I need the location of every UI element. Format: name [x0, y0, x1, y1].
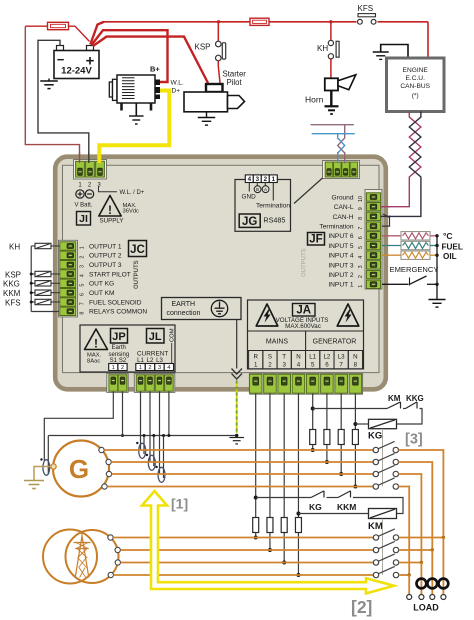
wire mains sense N [297, 394, 299, 576]
wire KG pole 3 output [399, 474, 422, 563]
wire battery + to starter pilot (thick red strand C) [93, 37, 208, 83]
wire CAN-H exit (over border) [381, 215, 392, 217]
node emergency [435, 283, 438, 286]
svg-text:KH: KH [317, 44, 328, 53]
wire to KG coil [397, 409, 423, 425]
label EMERGENCY [390, 265, 439, 274]
label Earth sensing [109, 345, 130, 358]
node KH branch [329, 20, 332, 23]
svg-text:3: 3 [256, 176, 260, 183]
wire generator phase 1 [104, 449, 373, 451]
label Starter Pilot [223, 70, 247, 88]
node mains sense T [282, 561, 286, 565]
node generator sense L2 [325, 460, 329, 464]
fuse generator L2 [324, 430, 330, 445]
svg-text:7: 7 [358, 227, 364, 230]
horn [325, 75, 356, 91]
wire COM link [171, 343, 173, 364]
svg-text:Earth: Earth [112, 345, 126, 351]
label KFS [358, 4, 374, 13]
svg-text:FUEL SOLENOID: FUEL SOLENOID [89, 299, 142, 306]
wire JI-2 entry (over border) [88, 153, 90, 164]
wire CT1 lead to JL1 [140, 392, 142, 451]
svg-text:CURRENT: CURRENT [137, 351, 168, 358]
svg-text:T: T [282, 354, 286, 361]
alternator (charger) [109, 75, 160, 111]
svg-text:CAN-BUS: CAN-BUS [400, 83, 430, 90]
svg-text:Pilot: Pilot [227, 78, 243, 87]
cable marker ring 2 [427, 579, 437, 589]
label [2] [351, 597, 372, 617]
svg-text:MAX.600Vac: MAX.600Vac [285, 323, 321, 330]
wire CAN bus stub B (blue) [312, 134, 355, 162]
svg-text:2: 2 [268, 362, 272, 369]
wire CAN-H twisted pair (dark) [382, 112, 421, 217]
label COM (vertical) [170, 328, 176, 342]
svg-text:D+: D+ [172, 88, 181, 95]
svg-text:L2: L2 [323, 354, 330, 361]
fuse F1 (battery fuse) [25, 22, 68, 29]
mains port 4 [108, 572, 113, 577]
generator neutral port [51, 464, 56, 469]
svg-text:RELAYS COMMON: RELAYS COMMON [89, 309, 147, 316]
wire CT2 return [152, 434, 155, 466]
svg-text:OUTPUT 1: OUTPUT 1 [89, 243, 122, 250]
svg-text:4: 4 [248, 176, 252, 183]
mains port 1 [108, 535, 113, 540]
wire CAN mauve entry (over border) [344, 152, 346, 164]
wire battery - to controller terminal JI-2 (black) [38, 40, 89, 162]
terminal block CAN (top) [323, 161, 360, 179]
svg-text:12-24V: 12-24V [61, 66, 92, 77]
label W.L. / D+ [99, 187, 145, 197]
label [3] [405, 432, 423, 448]
label LOAD [413, 603, 439, 613]
wire generator sense L2 [326, 394, 328, 463]
fuse mains N [295, 518, 301, 533]
svg-text:36Vdc: 36Vdc [123, 208, 140, 214]
load terminal 4 [441, 595, 446, 600]
svg-text:Termination: Termination [319, 224, 353, 231]
svg-text:8: 8 [358, 217, 364, 220]
relay coil KH [31, 243, 60, 248]
current transformer CT1 [136, 442, 146, 459]
node generator sense L3 [339, 472, 343, 476]
wire generator sense L3 [340, 394, 342, 475]
JC output labels [89, 243, 147, 315]
node load join 1 [442, 536, 445, 539]
contact KM pole 1 [373, 529, 398, 540]
svg-text:1: 1 [80, 246, 86, 249]
svg-text:7: 7 [80, 302, 86, 305]
wire CAN-L exit (over border) [381, 206, 392, 208]
resistor oil sensor [382, 251, 437, 259]
svg-text:KKG: KKG [406, 394, 424, 403]
resistor fuel sensor [382, 241, 437, 249]
label OUTPUTS (faint, vertical) [302, 248, 308, 277]
wire generator phase 3 [112, 473, 373, 475]
node KM coil feed [254, 496, 258, 500]
fuse generator L3 [338, 430, 344, 445]
svg-text:R: R [253, 354, 258, 361]
ENGINE ECU CAN-BUS box [387, 58, 445, 112]
label KSP [195, 43, 211, 52]
wire generator phase 4 [107, 486, 373, 488]
svg-text:L1: L1 [309, 354, 316, 361]
svg-text:6: 6 [358, 236, 364, 239]
svg-text:OUTPUT 2: OUTPUT 2 [89, 253, 122, 260]
JL pin boxes 1 2 3 4 [136, 364, 174, 372]
JP/JL section box [80, 325, 175, 372]
label box JI [77, 212, 91, 226]
wire KH to horn [330, 59, 332, 78]
svg-text:6: 6 [325, 362, 329, 369]
contact KM (aux, NC) [387, 402, 401, 409]
warning triangle MAX 36Vdc [99, 196, 121, 218]
contact KM pole 3 [373, 554, 398, 565]
fuse mains S [267, 518, 273, 533]
node mains sense R [254, 536, 258, 540]
svg-text:JL: JL [149, 331, 162, 343]
svg-text:JF: JF [309, 234, 322, 246]
svg-text:W.L.: W.L. [171, 80, 184, 87]
wire KG coil to neutral [355, 423, 368, 425]
label KKM aux [337, 502, 356, 512]
V Batt polarity symbols [76, 190, 94, 198]
relay coil KKG [31, 281, 60, 286]
svg-text:S2: S2 [119, 358, 127, 364]
label D+ [172, 88, 181, 95]
svg-text:KSP: KSP [5, 270, 21, 279]
terminal block JL [134, 374, 175, 393]
wire sensors common [436, 236, 438, 284]
label KKM coil [3, 289, 21, 298]
svg-text:3: 3 [358, 265, 364, 268]
terminal block JF (inputs/CAN) [365, 190, 382, 290]
svg-text:FUEL: FUEL [442, 243, 463, 252]
warning triangle MAX 8Aac [85, 329, 108, 351]
svg-text:(*): (*) [412, 93, 419, 100]
wire KM pole 3 output [399, 562, 422, 564]
svg-text:Ground: Ground [332, 194, 354, 201]
alternator ground [129, 103, 144, 124]
label V Batt. [75, 203, 93, 209]
wire load feeder 1 [442, 538, 444, 595]
svg-text:KSP: KSP [195, 43, 211, 52]
svg-text:3: 3 [282, 362, 286, 369]
svg-text:5: 5 [311, 362, 315, 369]
svg-text:!: ! [94, 337, 98, 351]
current transformer CT3 [155, 466, 165, 483]
label SUPPLY [100, 218, 124, 225]
label KKG aux [406, 394, 424, 403]
svg-text:INPUT 1: INPUT 1 [328, 282, 353, 289]
svg-text:ENGINE: ENGINE [403, 67, 429, 74]
svg-text:GND: GND [242, 194, 257, 201]
wire CT3 lead to JL3 [159, 392, 161, 475]
svg-text:SUPPLY: SUPPLY [100, 218, 124, 225]
JG pin wires and B/A [249, 183, 273, 201]
wire KSP to starter pilot [218, 61, 220, 83]
node KG coil neutral [353, 422, 357, 426]
switch emergency stop [382, 276, 437, 286]
fuse F2 (on main bus) [250, 18, 269, 25]
svg-text:5: 5 [80, 284, 86, 287]
svg-text:5: 5 [358, 246, 364, 249]
wire generator phase 2 [111, 461, 373, 463]
svg-text:EMERGENCY: EMERGENCY [390, 265, 439, 274]
wire KM pole 4 output [399, 574, 410, 576]
generator earth ground [24, 481, 44, 489]
relay coil KKM [31, 290, 60, 295]
svg-text:2: 2 [148, 365, 151, 371]
wire battery + supply (thick red strand A to main bus) [90, 22, 104, 45]
battery 12-24V [54, 46, 99, 79]
wire KG coil circuit [313, 408, 387, 410]
svg-text:10: 10 [358, 196, 364, 202]
label KSP coil [5, 270, 21, 279]
JF input labels [319, 194, 353, 288]
wire mains sense S [269, 394, 271, 551]
contact KH [328, 22, 339, 59]
wire generator neutral to earth [34, 467, 51, 481]
contact KKM [327, 491, 351, 498]
node load join 4 [408, 573, 411, 576]
svg-text:INPUT 4: INPUT 4 [328, 253, 353, 260]
starter pilot ground [198, 112, 216, 125]
svg-text:N: N [353, 354, 357, 361]
svg-text:2: 2 [80, 256, 86, 259]
svg-text:3: 3 [158, 365, 161, 371]
node KFS coil tap [30, 301, 33, 304]
contact KM pole 2 [373, 541, 398, 552]
wire earth sensing S1 [44, 392, 113, 461]
node KG coil feed [311, 407, 315, 411]
svg-text:W.L. / D+: W.L. / D+ [120, 190, 145, 196]
earth lead chevrons [232, 369, 243, 380]
label [1] [171, 496, 188, 512]
svg-text:INPUT 2: INPUT 2 [328, 272, 353, 279]
node load join 3 [420, 561, 423, 564]
node KSP coil tap [30, 273, 33, 276]
svg-text:OUT KM: OUT KM [89, 290, 115, 297]
wire CAN bus stub A (mauve) [311, 125, 354, 162]
wire mains phase 2 [120, 549, 373, 551]
warning triangle (right lightning) [337, 304, 359, 326]
label KH [317, 44, 328, 53]
svg-text:OUT KG: OUT KG [89, 281, 114, 288]
wire load feeder 4 [408, 575, 410, 594]
wire KM coil to neutral [298, 513, 368, 515]
svg-text:OUTPUTS: OUTPUTS [134, 260, 140, 289]
fuse mains T [281, 518, 287, 533]
fuse mains R [253, 518, 259, 533]
wire battery fuse to controller terminal JI-1 (dark red) [25, 26, 79, 162]
svg-text:1: 1 [272, 176, 276, 183]
current transformer CT2 [146, 454, 156, 471]
node KSP branch [217, 20, 220, 23]
svg-text:2: 2 [358, 275, 364, 278]
wire bus to ECU [427, 22, 429, 58]
svg-text:2: 2 [264, 176, 268, 183]
svg-text:E.C.U.: E.C.U. [405, 75, 425, 82]
label KFS coil [5, 298, 21, 307]
JP pin boxes 1 2 [109, 364, 127, 372]
label OIL [443, 252, 457, 261]
JG pin boxes 4 3 2 1 [245, 175, 277, 183]
label GND [242, 194, 257, 201]
label MAINS [266, 339, 289, 346]
wire mains phase 3 [121, 562, 374, 564]
current transformer CT earth [40, 458, 49, 475]
svg-text:1: 1 [112, 365, 115, 371]
wire KM coil circuit [256, 497, 311, 499]
label KKG coil [3, 280, 20, 289]
label box JL [147, 329, 165, 344]
svg-text:MAINS: MAINS [266, 339, 289, 346]
svg-text:7: 7 [339, 362, 343, 369]
svg-text:KM: KM [368, 521, 383, 532]
svg-text:connection: connection [167, 310, 201, 317]
svg-text:COM: COM [170, 328, 176, 342]
JC pin numbers 1-8 [80, 246, 86, 314]
svg-text:4: 4 [80, 274, 86, 277]
wire mains phase 4 [114, 574, 374, 576]
wire JI-1 entry (over border) [79, 153, 81, 164]
controller inner panel [63, 165, 380, 372]
wire mains sense T [283, 394, 285, 563]
earth symbol at CT common [229, 438, 244, 444]
svg-text:8: 8 [354, 362, 358, 369]
JI pin numbers 1 2 3 [78, 183, 101, 189]
wire JI-3 entry (over border) [97, 152, 101, 164]
svg-text:9: 9 [358, 207, 364, 210]
svg-text:KG: KG [309, 502, 322, 512]
generator G [53, 441, 109, 497]
wire KG pole 4 output [399, 487, 410, 576]
label CURRENT [137, 351, 168, 358]
label W.L. [171, 80, 184, 87]
node oil sensor [435, 254, 438, 257]
terminal block JP [107, 374, 128, 393]
earth lead (green/yellow dashed) [236, 381, 238, 434]
svg-text:INPUT 3: INPUT 3 [328, 262, 353, 269]
mains port 3 [115, 560, 120, 565]
wire generator sense N [354, 394, 356, 487]
wire KM pole 1 output [399, 537, 444, 539]
JA voltage inputs section box [248, 300, 364, 369]
svg-text:1: 1 [139, 365, 142, 371]
EARTH connection box [162, 298, 242, 320]
terminal block JC (outputs) [59, 240, 78, 317]
contact KKG [403, 402, 417, 409]
svg-text:KG: KG [368, 431, 382, 442]
contact KG pole 4 [373, 478, 398, 489]
wire CAN blue entry (over border) [337, 152, 339, 164]
svg-text:L3: L3 [338, 354, 345, 361]
annotation line CAN block to JG detail [294, 178, 323, 204]
load terminal 1 [407, 595, 412, 600]
controller unit outline [55, 157, 386, 390]
node load join 2 [431, 548, 434, 551]
label KM coil [368, 521, 383, 532]
label MAX 8Aac [87, 353, 102, 365]
svg-text:[3]: [3] [405, 432, 423, 448]
JF pin numbers 10-1 [358, 196, 364, 288]
svg-text:JC: JC [130, 244, 145, 256]
sensors ground [429, 284, 446, 307]
label VOLTAGE INPUTS MAX 600Vac [276, 317, 329, 330]
contact KG (aux, NC) [311, 491, 324, 498]
label degC [443, 231, 453, 241]
coil KG [369, 419, 397, 428]
wire JL COM [167, 392, 170, 438]
label box JP [111, 329, 128, 344]
label Horn [305, 95, 324, 105]
node fuel sensor [435, 244, 438, 247]
svg-text:EARTH: EARTH [172, 301, 196, 308]
contact KSP [216, 22, 226, 61]
label Termination [256, 203, 290, 210]
node mains sense N [296, 573, 300, 577]
label box JC [129, 241, 147, 257]
wire alternator D+/W.L. to JI-3 (yellow) [99, 91, 169, 163]
generator port L3 [106, 471, 111, 476]
wire fuse to battery + [69, 26, 90, 41]
node KM coil neutral [296, 512, 300, 516]
label box JG [239, 214, 260, 228]
svg-text:KFS: KFS [5, 298, 21, 307]
label KH coil [9, 242, 20, 251]
node temp sensor [435, 234, 438, 237]
node KKG coil tap [30, 282, 33, 285]
contact KG pole 2 [373, 453, 398, 464]
svg-text:B+: B+ [150, 65, 160, 74]
contact KM pole 4 [373, 566, 398, 577]
contact KFS [358, 14, 377, 25]
svg-text:1: 1 [358, 285, 364, 288]
svg-text:KH: KH [9, 242, 20, 251]
wire relays common bus [31, 246, 59, 312]
svg-text:°C: °C [443, 231, 453, 241]
node generator sense L1 [311, 448, 315, 452]
wire battery + to alternator B+ (thick red strand B) [92, 30, 168, 82]
label box JA [293, 304, 316, 317]
svg-text:1: 1 [254, 362, 258, 369]
fuse generator L1 [310, 430, 316, 445]
contact KG pole 3 [373, 465, 398, 476]
label KM aux [388, 394, 401, 403]
label box JF [308, 233, 325, 246]
wire CT common bus to earth [48, 436, 236, 475]
battery ground [40, 79, 58, 89]
svg-text:JG: JG [242, 216, 257, 228]
node KKM coil tap [30, 291, 33, 294]
svg-text:Termination: Termination [256, 203, 290, 210]
svg-text:2: 2 [121, 365, 124, 371]
cable marker ring 3 [439, 579, 449, 589]
svg-text:8Aac: 8Aac [87, 358, 100, 364]
node generator sense N [353, 485, 357, 489]
label OUTPUTS (vertical) [134, 260, 140, 289]
svg-text:INPUT 5: INPUT 5 [328, 243, 353, 250]
label MAX 36Vdc [123, 203, 140, 215]
wire load feeder 3 [420, 563, 422, 595]
svg-text:B: B [256, 187, 259, 192]
warning triangle (left lightning) [256, 304, 278, 326]
svg-text:KM: KM [388, 394, 401, 403]
svg-text:4: 4 [297, 362, 301, 369]
